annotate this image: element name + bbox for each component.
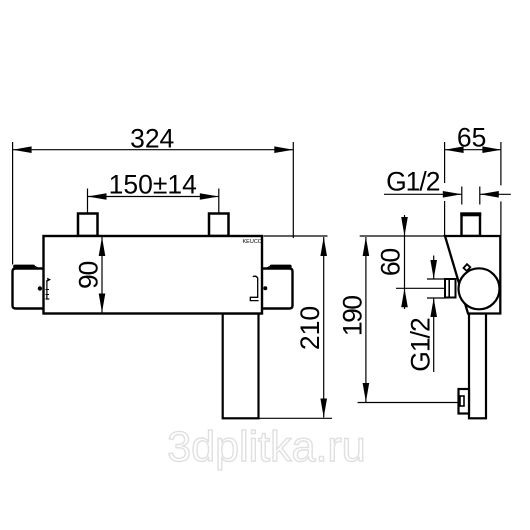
svg-text:324: 324 — [130, 124, 174, 154]
svg-text:KEUCO: KEUCO — [243, 239, 263, 245]
svg-text:G1/2: G1/2 — [386, 167, 440, 197]
svg-text:60: 60 — [376, 249, 406, 277]
svg-text:65: 65 — [457, 122, 486, 152]
svg-text:210: 210 — [295, 306, 325, 350]
svg-text:150±14: 150±14 — [109, 169, 197, 199]
svg-text:190: 190 — [337, 296, 367, 336]
svg-text:90: 90 — [74, 262, 104, 290]
svg-text:G1/2: G1/2 — [406, 318, 436, 372]
svg-text:3dplitka.ru: 3dplitka.ru — [167, 423, 365, 471]
